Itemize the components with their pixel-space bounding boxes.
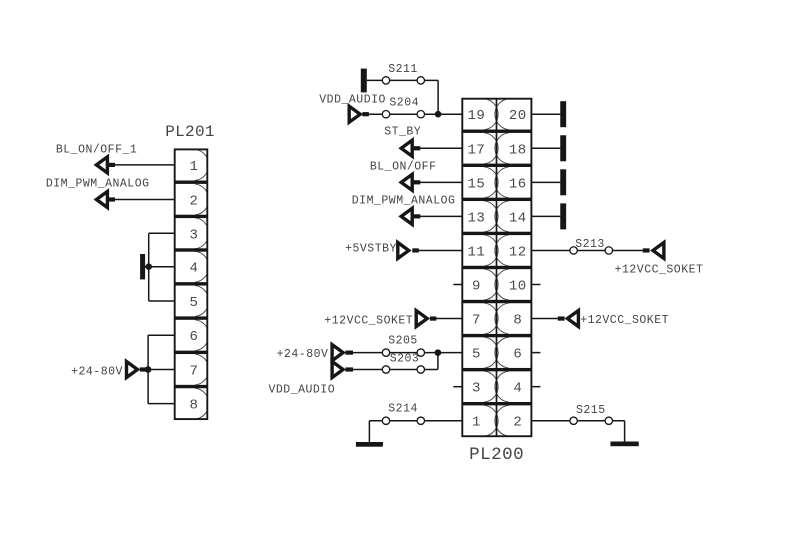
svg-text:14: 14 — [509, 210, 527, 226]
svg-text:6: 6 — [190, 329, 199, 345]
svg-text:+12VCC_SOKET: +12VCC_SOKET — [615, 263, 704, 276]
svg-text:18: 18 — [509, 142, 527, 158]
svg-text:9: 9 — [472, 279, 481, 295]
svg-text:+12VCC_SOKET: +12VCC_SOKET — [324, 315, 413, 328]
svg-text:7: 7 — [472, 313, 481, 329]
svg-text:S203: S203 — [390, 352, 420, 365]
svg-text:+5VSTBY: +5VSTBY — [345, 242, 397, 255]
svg-text:S213: S213 — [575, 238, 605, 251]
svg-text:17: 17 — [467, 142, 485, 158]
svg-text:BL_ON/OFF: BL_ON/OFF — [370, 160, 437, 173]
svg-text:DIM_PWM_ANALOG: DIM_PWM_ANALOG — [46, 178, 150, 191]
svg-text:16: 16 — [509, 176, 527, 192]
svg-text:1: 1 — [472, 415, 481, 431]
svg-text:6: 6 — [513, 347, 522, 363]
svg-text:+24-80V: +24-80V — [71, 365, 123, 378]
svg-text:7: 7 — [190, 364, 199, 380]
svg-text:PL200: PL200 — [469, 445, 524, 465]
svg-text:20: 20 — [509, 108, 527, 124]
svg-text:19: 19 — [467, 108, 485, 124]
svg-text:S204: S204 — [389, 96, 419, 109]
svg-text:3: 3 — [472, 381, 481, 397]
svg-text:1: 1 — [190, 159, 199, 175]
svg-text:S215: S215 — [576, 404, 606, 417]
svg-text:S214: S214 — [388, 402, 418, 415]
svg-text:S211: S211 — [388, 63, 418, 76]
svg-text:10: 10 — [509, 279, 527, 295]
svg-text:8: 8 — [513, 313, 522, 329]
svg-text:5: 5 — [190, 295, 199, 311]
svg-text:11: 11 — [467, 244, 485, 260]
svg-text:S205: S205 — [388, 335, 418, 348]
svg-text:2: 2 — [513, 415, 522, 431]
svg-text:8: 8 — [190, 398, 199, 414]
svg-text:13: 13 — [467, 210, 485, 226]
svg-text:PL201: PL201 — [165, 123, 215, 141]
svg-text:VDD_AUDIO: VDD_AUDIO — [268, 383, 335, 396]
svg-text:4: 4 — [513, 381, 522, 397]
svg-text:DIM_PWM_ANALOG: DIM_PWM_ANALOG — [352, 194, 456, 207]
svg-text:VDD_AUDIO: VDD_AUDIO — [319, 94, 386, 107]
svg-text:3: 3 — [190, 227, 199, 243]
svg-text:+12VCC_SOKET: +12VCC_SOKET — [580, 314, 669, 327]
svg-text:5: 5 — [472, 347, 481, 363]
svg-text:12: 12 — [509, 244, 527, 260]
svg-text:4: 4 — [190, 261, 199, 277]
svg-text:+24-80V: +24-80V — [277, 348, 329, 361]
svg-text:ST_BY: ST_BY — [384, 126, 421, 139]
svg-text:BL_ON/OFF_1: BL_ON/OFF_1 — [56, 144, 137, 157]
svg-text:2: 2 — [190, 194, 199, 210]
svg-text:15: 15 — [467, 176, 485, 192]
